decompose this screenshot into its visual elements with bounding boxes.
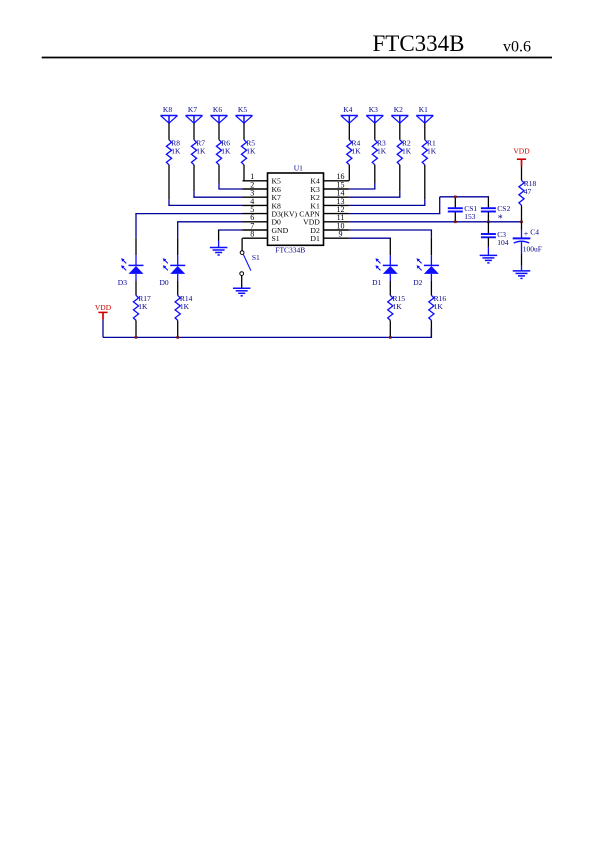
touch key K5	[236, 105, 253, 123]
power VDD right	[513, 147, 530, 167]
wire R3 to pin15	[349, 165, 376, 189]
svg-text:1K: 1K	[171, 147, 181, 156]
svg-text:1K: 1K	[434, 302, 444, 311]
pin 7 GND	[243, 221, 289, 235]
wire pin7 to ground	[218, 230, 243, 248]
junction rail-D0	[176, 336, 179, 339]
pin 10 D2	[310, 221, 349, 235]
wire R2 to pin14	[349, 165, 401, 197]
LED D3	[118, 258, 144, 287]
capacitor CS2 *	[481, 204, 511, 225]
touch key K6	[211, 105, 228, 123]
svg-text:104: 104	[497, 238, 509, 247]
wire R1 to pin13	[349, 165, 426, 206]
svg-text:D0: D0	[160, 278, 169, 287]
resistor R3 1K	[372, 138, 387, 164]
svg-text:D1: D1	[310, 234, 320, 243]
wire K6 key to resistor	[218, 123, 220, 140]
ground under S1	[233, 288, 251, 296]
svg-text:1K: 1K	[393, 302, 403, 311]
svg-text:FTC334B: FTC334B	[373, 31, 465, 56]
touch key K2	[391, 105, 408, 123]
svg-text:100uF: 100uF	[523, 244, 542, 253]
wire K4 key to resistor	[348, 123, 350, 140]
wire R7 to pin3	[193, 165, 242, 197]
svg-text:VDD: VDD	[513, 147, 530, 156]
pin 6 D0	[243, 213, 282, 227]
pin 14 K2	[310, 189, 349, 203]
wire K1 key to resistor	[424, 123, 426, 140]
svg-text:K8: K8	[163, 105, 172, 114]
junction CS2 bottom	[487, 221, 490, 224]
resistor R8 1K	[166, 138, 181, 164]
svg-text:+: +	[524, 230, 529, 239]
svg-text:K4: K4	[343, 105, 352, 114]
pin 12 CAPN	[299, 205, 349, 219]
resistor R15 1K	[388, 294, 406, 320]
wire CS1 leads	[454, 197, 456, 222]
resistor R5 1K	[241, 138, 256, 164]
ground under pin7	[210, 248, 228, 256]
junction CS1 top	[454, 196, 457, 199]
svg-text:K5: K5	[238, 105, 247, 114]
svg-text:D1: D1	[372, 278, 381, 287]
wire R15 to VDD rail	[389, 320, 391, 337]
pin 3 K7	[243, 189, 282, 203]
resistor R4 1K	[347, 138, 362, 164]
wire pin5 to LED D3	[135, 214, 242, 266]
junction rail-D1	[389, 336, 392, 339]
pin 5 D3(KV)	[243, 205, 298, 219]
wire CS2 leads	[487, 197, 489, 222]
svg-text:K3: K3	[369, 105, 378, 114]
resistor R2 1K	[397, 138, 412, 164]
svg-text:K6: K6	[213, 105, 222, 114]
wire D2 rail corner riser	[430, 328, 432, 338]
capacitor C3 104	[481, 230, 509, 247]
svg-text:D3: D3	[118, 278, 127, 287]
title rule line	[42, 57, 552, 59]
wire R14 to VDD rail	[177, 320, 179, 337]
svg-text:v0.6: v0.6	[503, 38, 531, 55]
wire bottom VDD rail	[103, 336, 431, 338]
svg-text:K7: K7	[188, 105, 197, 114]
wire R18 to VDD net	[521, 205, 523, 222]
svg-text:1K: 1K	[138, 302, 148, 311]
pin 1 K5	[243, 172, 282, 186]
touch key K4	[341, 105, 358, 123]
wire CAPN net pin12 riser and top rail	[349, 197, 489, 214]
wire VDD net pin11 to R18 column	[349, 221, 522, 223]
wire R5 to pin1	[243, 165, 245, 181]
touch key K3	[366, 105, 383, 123]
pin 13 K1	[310, 197, 349, 211]
pin 15 K3	[310, 180, 349, 194]
svg-text:153: 153	[464, 212, 476, 221]
wire LED D1 to resistor R15	[389, 274, 391, 296]
wire K2 key to resistor	[399, 123, 401, 140]
junction R18-VDD net	[520, 221, 523, 224]
wire pin6 to LED D0	[177, 222, 242, 266]
op IC U1 FTC334B body	[268, 164, 324, 255]
power VDD left	[95, 303, 112, 320]
svg-text:D2: D2	[413, 278, 422, 287]
svg-text:VDD: VDD	[95, 303, 112, 312]
pin 9 D1	[310, 230, 349, 244]
wire C3 to ground	[487, 237, 489, 255]
LED D0	[160, 258, 186, 287]
ground under C4	[513, 271, 531, 279]
resistor R16 1K	[429, 294, 447, 320]
svg-text:FTC334B: FTC334B	[275, 246, 305, 255]
svg-text:S1: S1	[272, 234, 280, 243]
LED D2	[413, 258, 439, 287]
capacitor CS1 153	[448, 204, 478, 221]
LED D1	[372, 258, 398, 287]
svg-text:8: 8	[250, 230, 254, 239]
wire K8 key to resistor	[168, 123, 170, 140]
wire R6 to pin2	[218, 165, 242, 189]
svg-text:1K: 1K	[180, 302, 190, 311]
svg-text:C4: C4	[530, 228, 539, 237]
svg-text:K1: K1	[419, 105, 428, 114]
wire K3 key to resistor	[374, 123, 376, 140]
wire C3 top lead	[487, 222, 489, 234]
svg-text:1K: 1K	[352, 147, 362, 156]
wire pin16 net to LED D1	[349, 238, 391, 265]
wire K7 key to resistor	[193, 123, 195, 140]
resistor R14 1K	[175, 294, 193, 320]
pin 8 S1	[243, 230, 280, 244]
wire switch to ground	[241, 276, 243, 289]
wire R8 to pin4	[168, 165, 242, 206]
svg-text:1K: 1K	[221, 147, 231, 156]
pin 16 K4	[310, 172, 349, 186]
svg-text:1K: 1K	[196, 147, 206, 156]
wire R16 to VDD rail	[430, 320, 432, 337]
switch S1	[240, 251, 260, 276]
resistor R6 1K	[216, 138, 231, 164]
svg-text:K2: K2	[394, 105, 403, 114]
svg-text:1K: 1K	[377, 147, 387, 156]
svg-text:*: *	[498, 214, 503, 225]
wire LED D2 to resistor R16	[430, 274, 432, 296]
pin 4 K8	[243, 197, 282, 211]
wire pin15 net to LED D2	[349, 230, 432, 265]
wire K5 key to resistor	[243, 123, 245, 140]
pin 11 VDD	[303, 213, 349, 227]
junction rail-D3	[135, 336, 138, 339]
svg-text:47: 47	[524, 187, 532, 196]
svg-text:CS2: CS2	[497, 204, 510, 213]
ground under C3	[480, 255, 498, 263]
wire R17 to VDD rail	[135, 320, 137, 337]
svg-text:1K: 1K	[402, 147, 412, 156]
wire LED D0 to resistor R14	[177, 274, 179, 296]
wire VDD to R18	[521, 167, 523, 181]
resistor R17 1K	[133, 294, 151, 320]
svg-text:9: 9	[339, 230, 343, 239]
touch key K1	[416, 105, 433, 123]
svg-text:1K: 1K	[427, 147, 437, 156]
svg-text:S1: S1	[252, 253, 260, 262]
wire C4 to ground	[521, 241, 523, 271]
wire VDD left to rail	[102, 320, 104, 338]
touch key K7	[186, 105, 203, 123]
capacitor C4 100uF	[513, 228, 542, 254]
wire LED D3 to resistor R17	[135, 274, 137, 296]
junction CS1 bottom	[454, 221, 457, 224]
resistor R18 47	[519, 179, 537, 205]
pin 2 K6	[243, 180, 282, 194]
touch key K8	[161, 105, 178, 123]
resistor R7 1K	[191, 138, 206, 164]
svg-text:U1: U1	[294, 164, 303, 173]
wire pin8 to switch S1	[241, 238, 243, 250]
wire R4 to pin16	[348, 165, 350, 181]
wire C4 top lead	[521, 222, 523, 239]
svg-text:1K: 1K	[246, 147, 256, 156]
resistor R1 1K	[422, 138, 437, 164]
